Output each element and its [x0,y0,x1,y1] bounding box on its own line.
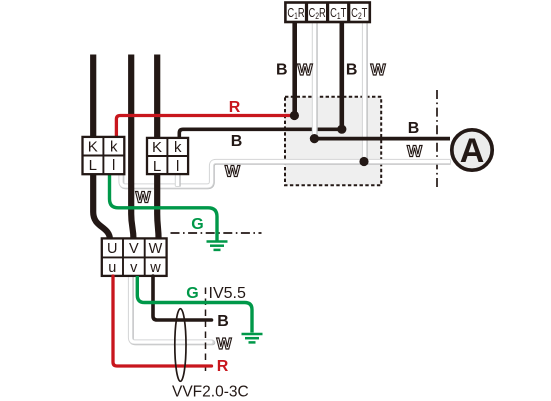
junction box (dashed outline, gray fill) [285,97,381,186]
svg-text:W: W [297,62,313,79]
wire G (green) from terminal v to ground G2, IV5.5 [137,276,252,333]
boundary chain line (vertical, near ammeter) [436,90,438,188]
junction node: C1R x R [290,111,299,120]
wire R (red) from CT1 terminal k to C1R junction [116,116,294,139]
junction node: C1T x B-from-CT2 [337,125,346,134]
svg-text:B: B [231,133,243,150]
svg-text:K: K [152,139,162,156]
svg-text:R: R [229,99,241,116]
junction node: C2T x W-to-ammeter [359,157,368,166]
terminal strip C1R C2R C1T C2T [285,3,369,23]
svg-text:L: L [153,158,161,175]
svg-text:G: G [186,285,198,302]
svg-text:K: K [88,139,98,156]
svg-text:IV5.5: IV5.5 [209,285,246,302]
wire from terminal C1T (black) down to junction with B [339,22,344,129]
svg-text:B: B [217,313,229,330]
svg-text:G: G [191,216,203,233]
CT1 terminal block (K k / L l) [83,137,125,174]
svg-text:V: V [129,241,139,257]
svg-text:L: L [89,157,97,174]
ground G2 [242,334,263,342]
cable sheath ellipse (VVF2.0-3C) [175,309,186,382]
wire W (white) from CT1 terminal l : zigzag to junction box and ammeter [121,162,451,187]
wire B (black) from CT2 terminal k to C1T junction [179,129,341,138]
wire from terminal C2R (white) down to junction [312,22,318,139]
svg-text:W: W [225,164,241,181]
svg-text:B: B [346,62,358,79]
svg-text:k: k [174,139,182,156]
svg-text:v: v [130,260,138,276]
svg-text:l: l [176,158,179,175]
svg-text:A: A [460,132,485,170]
motor terminal block (U V W / u v w) [102,238,167,276]
wire W (white) from CT2 terminal l : down to zigzag [175,171,181,187]
svg-text:W: W [370,62,386,79]
ammeter A [452,130,492,170]
svg-text:w: w [149,260,161,276]
dashed leader line (bottom, cable section) [205,288,207,376]
wire B (black) from terminal w down-right [153,276,212,320]
svg-text:W: W [216,336,232,353]
wire from terminal C1R (black) down to junction with R [292,22,297,116]
wire R (red) from terminal u down-right [113,276,212,366]
svg-text:W: W [407,144,423,161]
junction node: C2R x B-to-ammeter [310,134,319,143]
wire G (green) from CT1 terminal l to ground G1 [110,173,218,241]
wire from terminal C2T (white) down to junction [362,22,368,162]
svg-text:U: U [107,241,117,257]
svg-text:VVF2.0-3C: VVF2.0-3C [172,384,249,401]
svg-text:R: R [217,358,229,375]
svg-text:u: u [108,260,116,276]
ground G1 [207,242,228,250]
wire B (black) junction to ammeter [314,137,450,141]
svg-text:l: l [112,157,115,174]
svg-text:B: B [276,62,288,79]
svg-text:k: k [110,139,118,156]
boundary chain line (horizontal, at ground G1) [171,232,262,234]
CT2 terminal block (K k / L l) [147,138,188,175]
svg-text:B: B [408,120,420,137]
svg-text:W: W [135,190,151,207]
feeder line 3 (black thick, through CT2 K-L to W) [157,55,158,241]
wire W (white) from terminal v : down then right [131,274,213,343]
svg-text:W: W [149,241,163,257]
feeder line 1 (black thick, through CT1 K-L to U) [93,55,110,241]
feeder line 2 (black thick, to V) [131,55,133,241]
